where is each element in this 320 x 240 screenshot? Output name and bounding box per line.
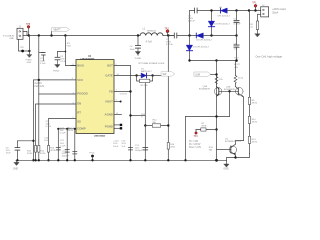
test point TP10 (black) xyxy=(91,155,94,158)
wire IC FB pin to x130 xyxy=(114,91,131,93)
wire cap column mid xyxy=(236,23,238,45)
wire IC BST pin to x130 xyxy=(114,66,131,161)
svg-text:49.9k: 49.9k xyxy=(252,141,258,143)
label C2 xyxy=(40,58,46,65)
node D3 bottom xyxy=(210,34,212,36)
svg-text:0: 0 xyxy=(141,116,143,118)
wire cap column lower xyxy=(236,47,238,60)
ground symbol above D5 xyxy=(137,53,139,55)
wire IC left pin BIAS stub xyxy=(71,65,76,67)
node rail x168.3 xyxy=(167,159,169,161)
svg-text:SS: SS xyxy=(77,119,81,123)
svg-text:FB: FB xyxy=(109,89,113,93)
node R12 right xyxy=(167,124,169,126)
svg-text:49.9k: 49.9k xyxy=(68,130,74,132)
svg-text:49.9k: 49.9k xyxy=(201,126,207,128)
capacitor C5 (series) xyxy=(174,33,177,38)
svg-text:VBATT: VBATT xyxy=(53,28,61,31)
svg-text:D1 DFLS2100-7: D1 DFLS2100-7 xyxy=(193,47,210,49)
svg-text:1000pF: 1000pF xyxy=(135,150,143,152)
IC pin numbers xyxy=(72,64,120,129)
node C3 tap xyxy=(65,51,67,53)
label C5 xyxy=(166,39,173,46)
IC pin names left xyxy=(77,63,87,130)
wire J1 pin1 stub xyxy=(23,31,27,35)
wire J1 to input rail xyxy=(23,35,29,37)
resistor R1 body xyxy=(256,21,258,30)
capacitor C12 body xyxy=(65,150,69,153)
diode D2 xyxy=(196,33,203,38)
svg-text:L1: L1 xyxy=(143,29,146,31)
node y129 x216 xyxy=(215,128,217,130)
svg-text:+200V output: +200V output xyxy=(272,8,286,11)
label C7 xyxy=(234,18,241,25)
svg-text:VCC: VCC xyxy=(77,78,83,82)
svg-text:10%: 10% xyxy=(44,140,48,142)
label R14 xyxy=(170,144,176,149)
transistor Q2A xyxy=(214,86,222,96)
label C16 xyxy=(113,141,119,148)
svg-text:10uF: 10uF xyxy=(130,49,136,51)
ground under C3 xyxy=(55,65,60,68)
label C13 xyxy=(135,145,143,152)
svg-text:25mA: 25mA xyxy=(272,11,278,14)
net flag SW xyxy=(161,72,174,76)
wire Q2B emitter vertical x243.3 xyxy=(243,97,245,141)
wire IC EP stub with square xyxy=(114,127,120,129)
svg-text:LM5160AD: LM5160AD xyxy=(94,135,106,138)
test point TP4 (red) xyxy=(195,132,198,135)
wire HV horizontal y60.3 xyxy=(190,60,237,62)
node R12 left xyxy=(144,124,146,126)
svg-text:BAT54 B-T: BAT54 B-T xyxy=(141,70,152,73)
svg-text:0.47uF: 0.47uF xyxy=(166,44,173,46)
wire x29.4 vertical input to ground xyxy=(28,36,30,52)
wire x67.2 drop xyxy=(66,129,68,161)
svg-text:GND: GND xyxy=(9,38,14,40)
wire L1 to SW node xyxy=(163,35,174,37)
wire IC PG stub xyxy=(114,101,121,103)
wire TP5 stem xyxy=(28,28,30,35)
node rail x48.5 xyxy=(47,159,49,161)
label R1 xyxy=(250,24,254,29)
svg-text:49.9k: 49.9k xyxy=(252,102,258,104)
svg-text:PGOOD: PGOOD xyxy=(77,91,87,95)
svg-text:PGND: PGND xyxy=(53,71,60,73)
label C15 xyxy=(121,141,126,148)
diode D1 xyxy=(186,45,192,51)
wire R5 loop right xyxy=(150,76,153,82)
capacitor C6 (series) xyxy=(195,8,198,13)
pin square 1 xyxy=(120,124,122,126)
capacitor C10 label xyxy=(62,150,70,157)
wire Q2 base link xyxy=(219,90,239,92)
node C9 branch xyxy=(32,140,34,142)
svg-text:1uF: 1uF xyxy=(121,146,125,148)
node rail x39 xyxy=(38,159,40,161)
svg-text:TP1: TP1 xyxy=(252,2,257,4)
svg-text:LM5160ADNT: LM5160ADNT xyxy=(80,57,95,60)
svg-text:BST: BST xyxy=(107,64,113,68)
node cap column top xyxy=(235,9,237,11)
transistor Q2B xyxy=(236,87,244,98)
svg-text:BC846BDW1T1G: BC846BDW1T1G xyxy=(225,141,241,143)
svg-text:DFLS2100-7: DFLS2100-7 xyxy=(218,16,231,18)
wire IC GATE pin to diode D5 xyxy=(114,75,137,77)
resistor R17 body xyxy=(47,146,49,153)
svg-text:1: 1 xyxy=(258,9,259,11)
svg-text:49.9k: 49.9k xyxy=(27,153,33,155)
net flag VBATT xyxy=(52,27,70,31)
connector J2 xyxy=(261,7,269,17)
svg-text:0.1uF: 0.1uF xyxy=(46,126,52,128)
svg-text:1000uF: 1000uF xyxy=(62,156,70,158)
svg-text:0.1uF: 0.1uF xyxy=(60,133,66,135)
wire TP10 stem xyxy=(92,156,94,160)
wire bus bottom L xyxy=(227,154,250,161)
wire net flag VBATT stub xyxy=(51,32,53,36)
wire x39 lower to rail xyxy=(38,94,40,160)
wire Q1 base xyxy=(217,149,231,151)
label JP1 xyxy=(67,43,72,48)
node rail x145.3 xyxy=(144,159,146,161)
node rail x33 xyxy=(32,159,34,161)
svg-text:BIAS: BIAS xyxy=(77,63,84,67)
svg-text:GND: GND xyxy=(13,168,18,170)
capacitor C4 input bypass xyxy=(135,36,140,52)
svg-text:+HV: +HV xyxy=(234,67,239,69)
resistor R10 body xyxy=(248,116,250,123)
wire x185.5 vertical to rail xyxy=(185,117,187,161)
label R10 xyxy=(252,119,258,124)
wire pump middle rail mid segment xyxy=(177,35,197,37)
wire top rail right xyxy=(227,10,261,12)
capacitor C8 xyxy=(234,45,239,47)
wire ground rail xyxy=(16,159,227,161)
svg-text:5: 5 xyxy=(116,99,118,101)
svg-text:One Cell, high voltage: One Cell, high voltage xyxy=(256,54,283,58)
node rail x67 xyxy=(66,159,68,161)
node D5 right xyxy=(151,74,153,76)
capacitor C17 label xyxy=(60,127,66,134)
ground under C4 xyxy=(135,52,140,55)
svg-text:VOUT: VOUT xyxy=(234,64,241,66)
node rail x17 xyxy=(16,159,18,161)
svg-text:R5 100: R5 100 xyxy=(141,85,149,87)
wire D5 to SW vertical xyxy=(153,75,169,77)
node rail x130 xyxy=(129,159,131,161)
wire x74.8 drop xyxy=(74,129,76,161)
wire IC pin COMP staircase xyxy=(58,128,76,130)
node flag stub x51.5 xyxy=(50,34,52,36)
capacitor C13 body xyxy=(143,147,148,150)
svg-text:Full: 4.2V: Full: 4.2V xyxy=(35,86,45,88)
svg-text:SRN6045: SRN6045 xyxy=(147,31,157,33)
label R9 xyxy=(252,100,258,105)
capacitor C2 stub xyxy=(39,52,44,54)
node COMP x74.8 xyxy=(74,128,76,130)
ground symbol rail right xyxy=(224,160,229,167)
svg-text:ILIM: ILIM xyxy=(195,73,200,76)
wire SW vertical x168.3 xyxy=(167,36,169,161)
connector J1 xyxy=(17,28,23,39)
svg-text:PGND: PGND xyxy=(105,124,113,128)
test point TP1 (red) xyxy=(254,4,257,7)
ground under input xyxy=(27,55,32,58)
node C4 branch x138 xyxy=(137,34,139,36)
svg-text:PJ-102A IN: PJ-102A IN xyxy=(3,34,14,37)
svg-text:10uF: 10uF xyxy=(6,153,12,155)
node Q2 base junction xyxy=(228,90,230,92)
node Q1 emitter bottom xyxy=(234,156,236,158)
node y60.3 x237 xyxy=(235,59,238,62)
svg-text:49.9k: 49.9k xyxy=(252,121,258,123)
wire R5 parallel loop xyxy=(137,76,140,82)
node rail x216 xyxy=(215,159,218,162)
wire HV bus vertical xyxy=(249,11,251,154)
resistor R8 zigzag on x244 xyxy=(234,76,237,84)
capacitor C12 label xyxy=(60,140,66,147)
svg-text:AGND: AGND xyxy=(105,112,113,116)
svg-text:0.47uF: 0.47uF xyxy=(188,21,195,23)
wire main input rail xyxy=(29,35,140,37)
label D5 xyxy=(141,68,152,73)
svg-text:Po = 20.5V: Po = 20.5V xyxy=(189,144,201,146)
resistor R9 body xyxy=(248,97,250,104)
svg-text:Pout = 2.0V: Pout = 2.0V xyxy=(189,146,202,149)
wire C3 jog xyxy=(57,52,65,58)
svg-text:TP3: TP3 xyxy=(164,29,169,31)
resistor R6 zigzag on x216 xyxy=(215,77,218,85)
node y59.5 x190 xyxy=(188,59,190,61)
svg-text:EN: EN xyxy=(77,101,81,105)
node cap column middle xyxy=(235,34,237,36)
label R13 xyxy=(252,139,258,144)
wire FB divider horizontal y115.5 xyxy=(131,115,146,117)
ground under R1 xyxy=(255,34,260,37)
svg-text:D3 DFLS2100-7: D3 DFLS2100-7 xyxy=(214,23,231,25)
node x130 FB junction xyxy=(129,90,131,92)
label R14 xyxy=(27,151,33,156)
diode D5 xyxy=(137,73,153,78)
wire IC pin VCC to x33 xyxy=(33,80,76,160)
svg-text:RT: RT xyxy=(77,110,81,114)
svg-text:NA: NA xyxy=(209,149,213,152)
label C9 xyxy=(6,147,12,154)
wire C9 branch xyxy=(17,141,33,148)
capacitor C9 body xyxy=(15,148,20,161)
resistor R12 body xyxy=(152,124,160,127)
wire IC pin SS staircase xyxy=(49,119,77,161)
resistor R14 body xyxy=(167,143,169,150)
wire x145.3 vertical xyxy=(144,83,146,160)
wire current limit left vertical x216 xyxy=(216,61,218,161)
svg-text:TP10: TP10 xyxy=(89,153,95,155)
resistor R5 body xyxy=(140,79,150,82)
wire y129 horizontal xyxy=(196,129,217,131)
svg-text:TP4: TP4 xyxy=(193,136,198,138)
svg-text:GND: GND xyxy=(27,62,32,64)
node D5 left xyxy=(135,74,137,76)
IC pin names right xyxy=(105,64,114,129)
test point TP3 (red) xyxy=(166,30,169,33)
capacitor C3 xyxy=(55,57,60,64)
node COMP x58.3 xyxy=(57,128,59,130)
capacitor C15 body xyxy=(128,147,132,150)
wire TP1 stem xyxy=(255,7,257,10)
wire D3 vertical xyxy=(211,11,213,36)
wire y116.5 horizontal xyxy=(186,116,230,118)
wire TP3 stem xyxy=(167,33,169,36)
label C3 xyxy=(60,56,66,63)
transistor Q1 xyxy=(229,144,237,155)
resistor R16 body xyxy=(35,146,37,153)
node rail x36 xyxy=(34,159,36,161)
node VIN branch x39 xyxy=(38,34,40,36)
svg-text:D2 DFLS2100-7: D2 DFLS2100-7 xyxy=(196,40,213,42)
wire D1 vertical xyxy=(189,36,191,61)
test point TP6 (black) xyxy=(21,50,24,53)
label R16 xyxy=(50,148,56,153)
svg-text:11.0k: 11.0k xyxy=(238,78,244,80)
node x130 y115.5 xyxy=(129,114,131,116)
wire pump middle rail right segment xyxy=(203,35,236,37)
capacitor C11 body xyxy=(56,147,60,150)
node J1 ground junction xyxy=(28,50,30,52)
pin square 2 xyxy=(120,127,122,129)
svg-text:0.1uF: 0.1uF xyxy=(60,145,66,147)
svg-text:VOUT: VOUT xyxy=(105,99,113,103)
svg-text:49.9k: 49.9k xyxy=(40,153,46,155)
node TP1 junction xyxy=(254,9,256,11)
svg-text:10: 10 xyxy=(250,26,253,28)
node rail x92.5 xyxy=(91,159,93,161)
svg-text:TP2: TP2 xyxy=(234,58,239,60)
node COMP x67.2 xyxy=(66,128,68,130)
label R5 xyxy=(141,85,149,87)
svg-text:2.2k: 2.2k xyxy=(219,79,224,81)
node C3 branch x65 xyxy=(64,34,66,36)
node SW junction xyxy=(167,34,169,36)
capacitor C10 body xyxy=(73,151,77,154)
svg-text:10uF: 10uF xyxy=(113,146,119,148)
svg-text:TP5: TP5 xyxy=(26,24,31,26)
wire J2 pin2 xyxy=(258,14,261,21)
node y59.5 x216 xyxy=(215,59,217,61)
wire cap column upper xyxy=(236,11,238,21)
svg-text:NA: NA xyxy=(153,121,157,124)
node D1 top xyxy=(188,34,190,36)
net flag ILIM xyxy=(194,72,210,76)
capacitor C2 xyxy=(42,53,46,62)
svg-text:3V = 4W: 3V = 4W xyxy=(189,141,199,143)
node x38.6 on VCC wire xyxy=(38,79,40,81)
diode D4 xyxy=(221,8,228,13)
label C8 xyxy=(234,43,240,50)
wire IC pin VIN to x39 xyxy=(39,93,76,95)
wire Q1 collector link xyxy=(236,141,244,145)
wire IC PGND stub with square xyxy=(114,124,120,126)
wire IC pin EN staircase xyxy=(36,104,76,160)
svg-text:4.7uF: 4.7uF xyxy=(60,61,66,63)
node ILIM junction xyxy=(215,73,217,75)
label R15 xyxy=(40,151,46,156)
svg-text:Q2A: Q2A xyxy=(203,85,208,88)
svg-text:1uF: 1uF xyxy=(234,49,238,51)
resistor R13 body xyxy=(248,136,250,143)
svg-text:GATE: GATE xyxy=(105,74,113,78)
svg-text:VOUT1: VOUT1 xyxy=(120,94,128,96)
capacitor C11 label xyxy=(46,121,52,128)
node D3 top xyxy=(210,9,212,11)
label R12 xyxy=(153,120,158,125)
svg-text:VD3: VD3 xyxy=(67,46,72,48)
diode D3 xyxy=(208,21,214,27)
svg-text:PGND: PGND xyxy=(135,58,142,60)
svg-text:D4: D4 xyxy=(219,7,223,9)
wire R8 to Q2B collector xyxy=(235,84,237,87)
node rail x185.5 xyxy=(184,159,186,161)
svg-text:205k: 205k xyxy=(170,146,176,148)
wire VIN vertical x39 upper xyxy=(38,36,40,95)
node y116.5 x216 xyxy=(215,115,217,117)
node rail x74 xyxy=(74,159,76,161)
ground symbol rail left xyxy=(14,160,19,165)
wire ground stub xyxy=(28,51,30,54)
label R17 xyxy=(68,128,74,133)
resistor R7 body xyxy=(201,128,206,131)
capacitor C7 xyxy=(234,20,239,22)
svg-text:TP6: TP6 xyxy=(20,47,25,49)
wire base drop x229 xyxy=(229,91,231,116)
node bus top xyxy=(248,9,250,11)
svg-text:COMP: COMP xyxy=(77,126,86,130)
wire pump middle rail left segment xyxy=(168,35,174,37)
wire top rail mid xyxy=(197,10,220,12)
wire R8 feed xyxy=(235,61,237,76)
svg-text:OPTIONAL BYPASS DIODE: OPTIONAL BYPASS DIODE xyxy=(138,62,165,65)
svg-text:49.9k: 49.9k xyxy=(50,150,56,152)
label C6 xyxy=(188,15,195,22)
wire Q1 emitter to bus bottom xyxy=(235,155,237,157)
wire pump top rail xyxy=(190,11,195,36)
inductor L1 xyxy=(140,33,163,36)
node input junction at J1 xyxy=(28,34,30,36)
resistor R15 body xyxy=(38,146,40,153)
wire R1 to ground xyxy=(257,30,259,34)
svg-text:BC846BDW: BC846BDW xyxy=(199,89,210,91)
svg-text:Cell #1: Cell #1 xyxy=(35,83,43,85)
wire x58.3 drop xyxy=(57,129,59,161)
svg-text:4.7uH: 4.7uH xyxy=(146,42,152,44)
IC U1 body xyxy=(76,60,114,134)
wire R12 bridge xyxy=(145,125,168,127)
test point TP5 (red) xyxy=(27,25,30,28)
svg-text:0.47uF: 0.47uF xyxy=(234,24,241,26)
wire C3 branch vertical x65 xyxy=(65,36,76,66)
node PG stub end xyxy=(120,101,122,103)
wire TP4 stem xyxy=(195,130,197,132)
node rail x58 xyxy=(57,159,59,161)
wire flag ILIM to x216 xyxy=(211,74,217,76)
svg-text:2.2uF: 2.2uF xyxy=(40,63,46,65)
wire IC AGND stub xyxy=(114,114,122,116)
wire J1 ground stem xyxy=(19,39,30,51)
svg-text:GND: GND xyxy=(223,168,228,170)
label C4 xyxy=(130,46,136,51)
